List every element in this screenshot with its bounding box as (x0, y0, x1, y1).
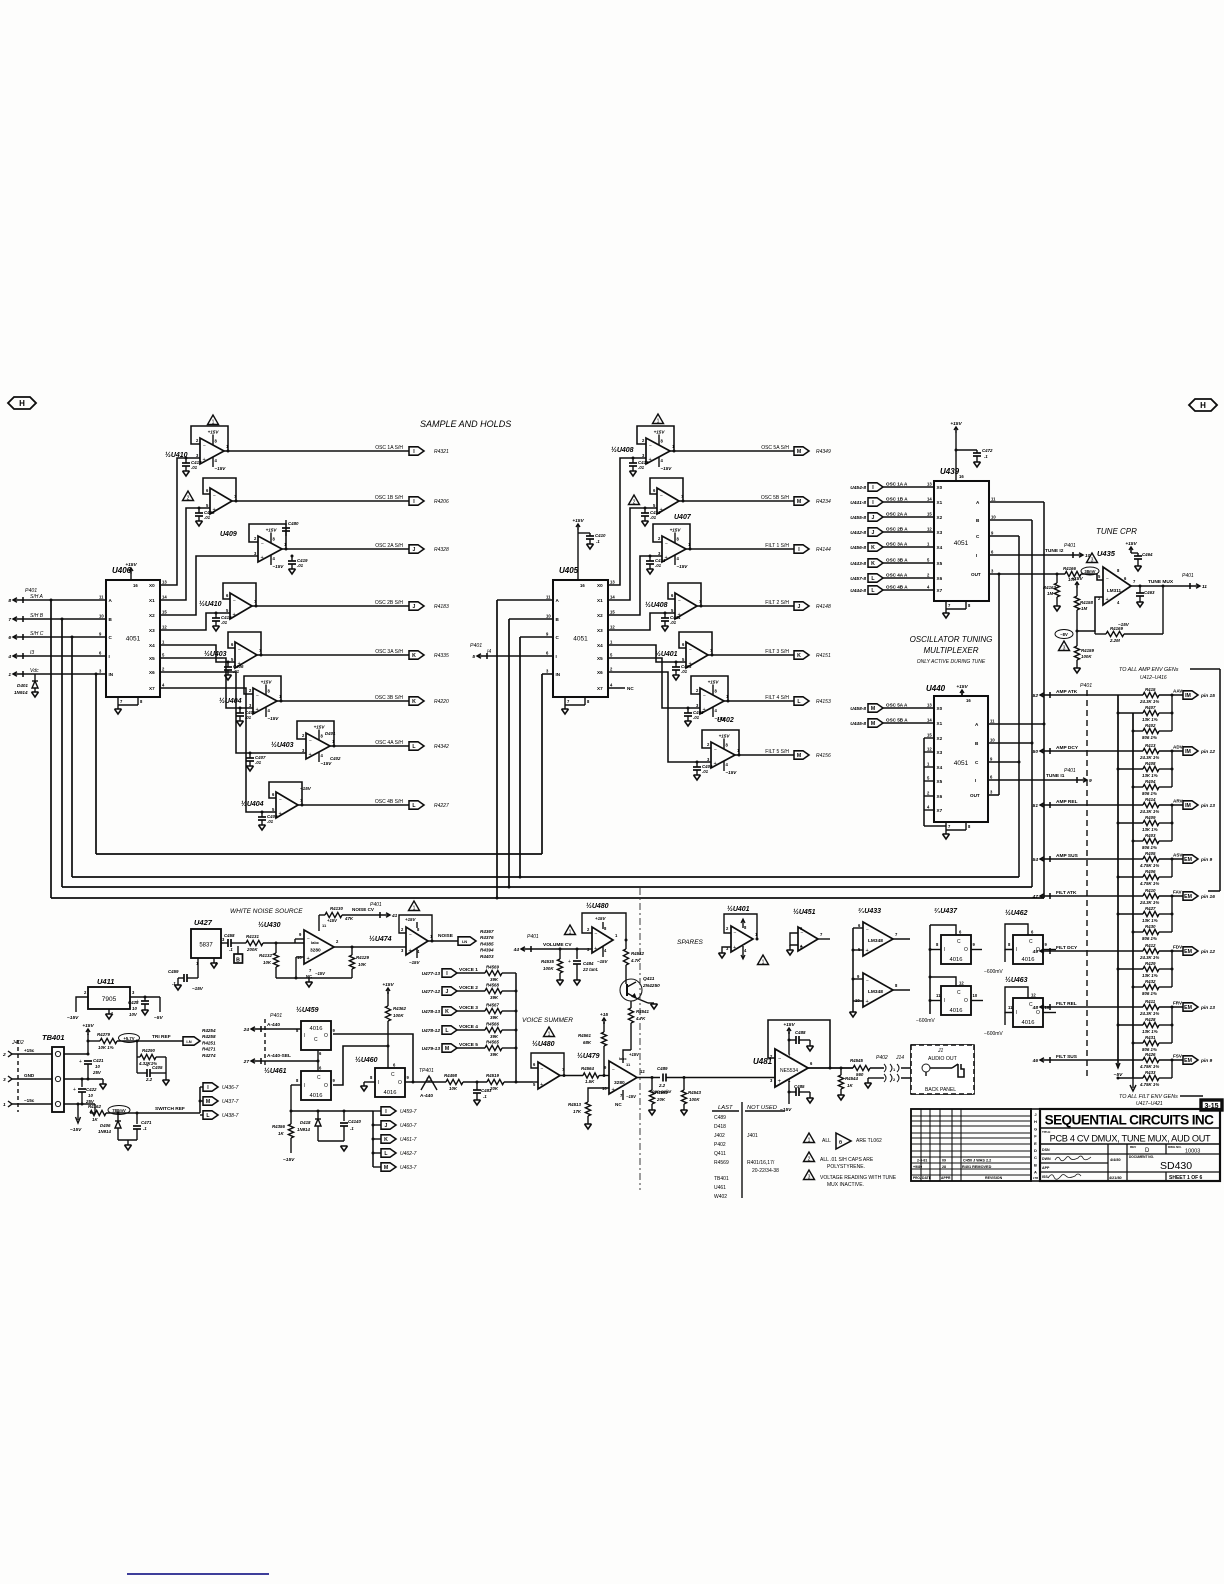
svg-text:3: 3 (808, 1174, 811, 1180)
svg-text:1: 1 (548, 1031, 551, 1037)
op-amp ½U410 (200, 438, 224, 464)
svg-text:U402: U402 (717, 717, 734, 724)
svg-text:FILT 5 S/H: FILT 5 S/H (765, 749, 789, 755)
resistor R429 13K 1% (1117, 968, 1120, 971)
svg-text:½U460: ½U460 (355, 1056, 378, 1064)
flag output FRV (1172, 1006, 1183, 1008)
svg-text:3: 3 (1063, 645, 1066, 651)
svg-text:.1: .1 (596, 539, 600, 544)
svg-text:12: 12 (927, 527, 932, 532)
svg-text:+15V: +15V (208, 430, 220, 435)
ground (562, 709, 569, 714)
svg-text:4016: 4016 (1022, 1020, 1035, 1026)
svg-text:R4376: R4376 (480, 935, 494, 940)
wire (930, 1000, 941, 1002)
svg-text:C425: C425 (128, 1000, 139, 1005)
svg-text:.01: .01 (191, 465, 198, 470)
svg-text:NC: NC (627, 686, 634, 691)
wire GND (12, 1078, 52, 1080)
resistor R409 13K 1% (1117, 822, 1120, 825)
ground (474, 1100, 481, 1105)
wire output (261, 654, 409, 656)
svg-text:I: I (944, 947, 945, 953)
svg-text:M: M (797, 753, 801, 759)
svg-text:806 1%: 806 1% (1142, 936, 1157, 941)
svg-text:13K 1%: 13K 1% (1142, 773, 1158, 778)
ground (651, 1004, 658, 1009)
svg-text:100K: 100K (543, 966, 554, 971)
wire (1050, 694, 1143, 696)
svg-text:TUNE I1: TUNE I1 (1046, 773, 1065, 779)
wire from U406 X5 (160, 658, 253, 708)
wire from U406 X0 (160, 458, 200, 585)
ground (807, 1046, 814, 1051)
wire (1171, 751, 1173, 787)
svg-text:I3: I3 (30, 650, 34, 656)
svg-text:−15V: −15V (409, 960, 420, 965)
wire TUNE I1 (988, 779, 1077, 781)
svg-text:U478-13: U478-13 (422, 1009, 441, 1015)
wire output (256, 605, 409, 607)
svg-text:½U408: ½U408 (645, 601, 668, 609)
svg-text:IM: IM (1185, 803, 1191, 809)
svg-text:I4: I4 (487, 649, 491, 655)
svg-text:TO ALL AMP ENV GENs: TO ALL AMP ENV GENs (1119, 667, 1179, 673)
wire (221, 942, 228, 944)
flag output U437-7 (200, 1100, 203, 1102)
svg-text:J: J (798, 604, 801, 610)
resistor R433 4.75K 1% (1117, 1077, 1120, 1080)
svg-text:27: 27 (243, 1059, 250, 1065)
connector P401 pin 7 S/H B (13, 618, 23, 620)
svg-text:U458-8: U458-8 (850, 706, 866, 712)
svg-text:ALL .01 S/H CAPS ARE: ALL .01 S/H CAPS ARE (820, 1157, 874, 1163)
wire (276, 977, 352, 979)
svg-text:SD430: SD430 (1160, 1160, 1192, 1172)
svg-text:X1: X1 (937, 721, 943, 726)
svg-text:+: + (73, 1087, 76, 1093)
svg-text:C459: C459 (168, 969, 179, 974)
svg-text:J: J (413, 604, 416, 610)
svg-text:FAV: FAV (1173, 890, 1183, 895)
svg-text:11: 11 (99, 595, 104, 600)
svg-text:−15V: −15V (283, 1157, 295, 1163)
svg-text:1.5K: 1.5K (585, 1079, 595, 1084)
wire OSC 2B A (883, 531, 934, 533)
svg-text:200K: 200K (246, 947, 258, 952)
analog switch U460 4016 (375, 1068, 405, 1097)
svg-text:P401: P401 (470, 643, 482, 649)
wire (295, 938, 304, 940)
svg-text:½U463: ½U463 (1005, 976, 1028, 984)
svg-text:REVISION: REVISION (985, 1176, 1003, 1180)
wire flag bus (372, 1111, 374, 1167)
resistor R406 4.75K 1% (1117, 876, 1120, 879)
svg-text:FILT 3 S/H: FILT 3 S/H (765, 649, 789, 655)
svg-text:R4131: R4131 (246, 934, 259, 939)
wire (457, 972, 485, 974)
svg-text:PCB 4 CV DMUX, TUNE MUX, AUD: PCB 4 CV DMUX, TUNE MUX, AUD OUT (1050, 1134, 1211, 1144)
svg-text:X2: X2 (149, 613, 155, 618)
svg-text:−15V: −15V (268, 716, 280, 721)
svg-text:R4394: R4394 (480, 948, 494, 953)
wire (893, 989, 910, 991)
svg-text:10K: 10K (358, 962, 367, 967)
svg-text:4051: 4051 (954, 760, 969, 767)
ground (1054, 606, 1061, 611)
arrow to filt env (1130, 1085, 1136, 1091)
wire (560, 1075, 583, 1077)
wire output (712, 654, 794, 656)
ground (361, 1086, 368, 1091)
svg-text:R4158: R4158 (1080, 600, 1093, 605)
svg-text:R4362: R4362 (393, 1006, 406, 1011)
svg-text:D: D (1145, 1148, 1150, 1154)
svg-text:−: − (256, 694, 259, 700)
op-amp U40x-2 (258, 536, 282, 562)
svg-text:17K: 17K (573, 1109, 582, 1114)
svg-text:½U403: ½U403 (271, 741, 294, 749)
wire SWITCH REF (106, 1112, 200, 1114)
op-amp U407 (657, 488, 679, 514)
svg-text:O: O (324, 1033, 328, 1039)
svg-text:SAMPLE AND HOLDS: SAMPLE AND HOLDS (420, 419, 511, 429)
svg-text:DWN: DWN (1042, 1157, 1051, 1161)
svg-text:+15V: +15V (382, 982, 394, 988)
svg-text:pin 15: pin 15 (1200, 693, 1215, 699)
svg-text:I: I (378, 1080, 379, 1086)
capacitor C407 (249, 753, 251, 758)
connector P401 pin 6 S/H C (13, 636, 23, 638)
capacitor C416 (198, 508, 200, 513)
svg-text:−15V: −15V (67, 1015, 79, 1021)
analog switch U437a 4016 (941, 935, 971, 964)
connector P401 pin 46 FILT SUS (1040, 1059, 1050, 1061)
svg-text:R4568: R4568 (486, 983, 499, 988)
svg-text:A: A (1034, 1170, 1037, 1175)
op-amp ½U401 (686, 642, 708, 668)
svg-text:24.3K 1%: 24.3K 1% (1139, 955, 1159, 960)
svg-text:O: O (1036, 1010, 1040, 1016)
svg-text:13K 1%: 13K 1% (1142, 717, 1158, 722)
svg-text:GND: GND (24, 1073, 35, 1078)
svg-text:AMP SUS: AMP SUS (1056, 853, 1079, 859)
wire OSC 1A A (883, 486, 934, 488)
connector P401 pin 8 S/H A (13, 599, 23, 601)
wire (1081, 574, 1103, 580)
wire (457, 1029, 485, 1031)
svg-text:R4543: R4543 (688, 1090, 701, 1095)
svg-text:R4567: R4567 (486, 1003, 499, 1008)
wire from U406 X1 (160, 508, 210, 600)
wire (23, 636, 106, 638)
svg-text:+15V: +15V (950, 421, 962, 427)
svg-text:O: O (964, 947, 968, 953)
svg-text:pin 13: pin 13 (1200, 803, 1215, 809)
ground (662, 626, 669, 631)
svg-text:13K 1%: 13K 1% (1142, 973, 1158, 978)
svg-text:FDV: FDV (1173, 945, 1183, 950)
resistor R4160 2.2M feedback (1094, 631, 1096, 634)
svg-text:24.3K 1%: 24.3K 1% (1139, 900, 1159, 905)
resistor R4545 560 (853, 1065, 870, 1070)
svg-text:VOICE 1: VOICE 1 (459, 967, 478, 973)
warning triangle 2 (629, 495, 640, 505)
svg-text:O: O (398, 1080, 402, 1086)
svg-text:EM: EM (1184, 1005, 1192, 1011)
ground (642, 521, 649, 526)
svg-text:+: + (594, 946, 597, 952)
svg-text:−: − (238, 648, 241, 654)
ground (102, 1079, 104, 1084)
svg-text:E: E (1034, 1141, 1037, 1146)
svg-text:13: 13 (927, 703, 932, 708)
svg-text:VOICE SUMMER: VOICE SUMMER (522, 1017, 573, 1024)
svg-text:+15V: +15V (1125, 541, 1137, 547)
flag output U462-7 (373, 1152, 381, 1154)
svg-text:AMP ATK: AMP ATK (1056, 689, 1078, 695)
capacitor C414 (664, 613, 666, 618)
svg-text:TUNE MUX: TUNE MUX (1148, 579, 1174, 585)
svg-text:C450 J WAS 2.2: C450 J WAS 2.2 (963, 1159, 991, 1163)
svg-text:OSC 1A S/H: OSC 1A S/H (375, 445, 403, 451)
wire U459 C pin (317, 1050, 319, 1061)
connector P401 pin 4 I3 (13, 655, 23, 657)
resistor R4159 100K (1076, 631, 1078, 646)
resistor R4562 20K (651, 1078, 653, 1091)
svg-text:+15V: +15V (266, 528, 278, 533)
capacitor C408 (261, 812, 263, 817)
svg-text:+15V: +15V (670, 528, 682, 533)
svg-text:EM: EM (1184, 894, 1192, 900)
warning triangle 1 (208, 415, 219, 425)
svg-text:OSC 5A A: OSC 5A A (886, 703, 908, 708)
svg-text:ISS: ISS (1042, 1175, 1048, 1179)
svg-text:.01: .01 (655, 563, 662, 568)
svg-text:I: I (304, 1033, 305, 1039)
svg-text:OSC 4B S/H: OSC 4B S/H (375, 799, 403, 805)
svg-text:R4349: R4349 (816, 449, 831, 455)
svg-text:24.3K 1%: 24.3K 1% (1139, 809, 1159, 814)
svg-text:U436-7: U436-7 (222, 1085, 239, 1091)
svg-text:OSC 2A S/H: OSC 2A S/H (375, 543, 403, 549)
wire (263, 942, 304, 944)
resistor R4542 4.7K (623, 949, 628, 965)
svg-text:16: 16 (133, 583, 138, 588)
svg-text:R4356: R4356 (272, 1124, 285, 1129)
wire S/H A vertical (50, 599, 53, 602)
svg-text:10: 10 (88, 1093, 93, 1098)
flag output R4321 (409, 447, 424, 455)
svg-text:P401: P401 (370, 902, 382, 908)
wire +15c (12, 1053, 52, 1055)
svg-text:4051: 4051 (573, 636, 588, 643)
svg-text:+: + (233, 612, 236, 618)
svg-text:15: 15 (162, 610, 167, 615)
svg-text:P401: P401 (1064, 543, 1076, 549)
svg-text:X7: X7 (937, 588, 943, 593)
svg-text:1: 1 (212, 419, 215, 425)
wire IN vertical (541, 674, 543, 854)
svg-text:100K: 100K (1081, 654, 1092, 659)
mux U406 4051 (106, 580, 160, 697)
svg-text:OSC 3A A: OSC 3A A (886, 542, 908, 547)
svg-text:U435: U435 (1097, 549, 1116, 558)
wire S/H B vertical (61, 618, 64, 621)
svg-text:.01: .01 (297, 563, 304, 568)
svg-text:R4513: R4513 (568, 1102, 581, 1107)
svg-text:4.75K 1%: 4.75K 1% (1139, 881, 1159, 886)
svg-text:.01: .01 (255, 760, 262, 765)
svg-text:C471: C471 (141, 1120, 152, 1125)
svg-text:+: + (309, 752, 312, 758)
svg-text:J: J (872, 515, 875, 521)
svg-text:11: 11 (1202, 584, 1207, 590)
signature ISS (1048, 1174, 1081, 1179)
flag output R4328 (409, 545, 424, 553)
svg-text:²⁄₄U437: ²⁄₄U437 (934, 908, 958, 915)
resistor R4568 39K (485, 988, 502, 993)
svg-text:EM: EM (1184, 949, 1192, 955)
svg-text:1: 1 (569, 929, 572, 935)
wire shield (868, 1077, 884, 1079)
svg-text:−15V: −15V (726, 770, 738, 775)
svg-text:4.75K 1%: 4.75K 1% (1139, 863, 1159, 868)
ground (865, 1083, 872, 1088)
svg-text:R4183: R4183 (434, 604, 449, 610)
capacitor C411 (649, 556, 651, 561)
svg-text:X0: X0 (149, 583, 155, 588)
svg-text:X6: X6 (937, 576, 943, 581)
ground (647, 569, 654, 574)
wire (1004, 1013, 1006, 1026)
svg-text:1: 1 (808, 1137, 811, 1143)
svg-text:B: B (1034, 1162, 1037, 1167)
wire (625, 940, 627, 949)
wire pin 7 NC (622, 1090, 624, 1100)
svg-text:3280: 3280 (614, 1080, 625, 1086)
wire U461 output (333, 1046, 388, 1085)
flag output ASV (1172, 858, 1183, 860)
ground (32, 692, 39, 697)
svg-text:ADV: ADV (1173, 745, 1184, 750)
svg-text:−8V: −8V (1060, 632, 1068, 637)
svg-text:15: 15 (927, 733, 932, 738)
resistor R4158 1M (1074, 596, 1079, 610)
svg-text:FILT 4 S/H: FILT 4 S/H (765, 695, 789, 701)
svg-text:AUDIO OUT: AUDIO OUT (928, 1056, 958, 1062)
warning triangle 3 (1059, 641, 1070, 651)
svg-text:10: 10 (1045, 1005, 1050, 1010)
ground (237, 721, 244, 726)
svg-text:TB401: TB401 (714, 1176, 729, 1182)
svg-text:C463: C463 (1144, 590, 1155, 595)
warning triangle 1 (544, 1027, 555, 1037)
wire U459 output (333, 1034, 413, 1082)
svg-text:J: J (1034, 1112, 1036, 1117)
svg-text:REV: REV (1130, 1145, 1136, 1149)
svg-text:R4162: R4162 (88, 1104, 101, 1109)
flag output R4156 (794, 751, 809, 759)
wire (457, 1047, 485, 1049)
svg-text:I: I (1016, 947, 1017, 953)
svg-text:X1: X1 (149, 598, 155, 603)
svg-text:½U480: ½U480 (532, 1040, 555, 1048)
svg-text:C: C (317, 1075, 321, 1081)
wire OSC 1B A (883, 501, 934, 503)
resistor R4565 39K (485, 1045, 502, 1050)
wire (1050, 1006, 1143, 1008)
resistor R431 806 1% (1132, 1042, 1135, 1045)
signature DWN (1055, 1156, 1091, 1161)
svg-text:½U430: ½U430 (258, 921, 281, 929)
ground (694, 775, 701, 780)
svg-text:41: 41 (391, 913, 398, 919)
ground (115, 709, 122, 714)
svg-text:U409: U409 (220, 531, 237, 538)
wire from U405 X0 (608, 458, 646, 585)
svg-text:MUX INACTIVE.: MUX INACTIVE. (827, 1182, 864, 1188)
wire output (228, 450, 409, 452)
svg-text:2: 2 (2, 1052, 6, 1058)
wire (870, 1067, 884, 1069)
ground (213, 958, 215, 963)
flag output U461-7 (373, 1138, 381, 1140)
capacitor C471 (136, 1113, 138, 1124)
svg-text:½U401: ½U401 (727, 905, 750, 913)
wire output U479 (637, 1077, 660, 1079)
svg-text:51: 51 (1033, 803, 1039, 809)
svg-text:10: 10 (990, 738, 995, 743)
svg-text:X7: X7 (937, 808, 943, 813)
svg-text:+: + (256, 707, 259, 713)
svg-text:SEQUENTIAL CIRCUITS INC: SEQUENTIAL CIRCUITS INC (1045, 1113, 1215, 1128)
svg-text:X4: X4 (937, 765, 943, 770)
svg-text:R4148: R4148 (816, 604, 831, 610)
svg-text:NE5534: NE5534 (780, 1068, 798, 1074)
svg-text:IN: IN (556, 672, 561, 677)
svg-text:1N914: 1N914 (297, 1127, 310, 1132)
svg-text:.01: .01 (221, 620, 228, 625)
resistor R4564 1.5K (583, 1073, 599, 1078)
wire output (302, 804, 409, 806)
svg-text:R403: R403 (1145, 833, 1156, 838)
svg-text:TP401: TP401 (419, 1068, 434, 1074)
wire C vertical (519, 637, 521, 877)
svg-text:U405: U405 (559, 566, 579, 575)
resistor R428 13K 1% (1117, 1024, 1120, 1027)
svg-text:R430: R430 (1145, 924, 1156, 929)
resistor R4131 200K (246, 940, 263, 945)
wire (1171, 951, 1173, 987)
svg-text:−15V: −15V (661, 466, 673, 471)
ground (838, 1095, 845, 1100)
analog switch U463 4016 (1013, 998, 1043, 1027)
svg-text:X7: X7 (597, 686, 603, 691)
svg-text:½U404: ½U404 (241, 800, 264, 808)
capacitor C488 (789, 1039, 796, 1041)
wire pin4 (788, 1081, 790, 1104)
svg-text:½U474: ½U474 (369, 935, 392, 943)
wire hook C pin a (930, 925, 956, 935)
resistor R4162 1K (94, 1104, 96, 1113)
svg-text:R4342: R4342 (434, 744, 449, 750)
wire (1050, 858, 1143, 860)
svg-text:.01: .01 (638, 465, 645, 470)
svg-text:R4541: R4541 (636, 1009, 649, 1014)
ground (630, 471, 637, 476)
svg-text:R4566: R4566 (486, 1022, 499, 1027)
